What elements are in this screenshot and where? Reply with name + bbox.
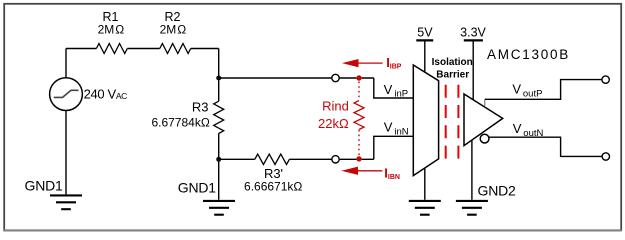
wire bottom with R3': [219, 136, 413, 159]
wire top node to amp: [219, 78, 413, 98]
svg-text:inP: inP: [394, 88, 408, 99]
resistor R3: [214, 101, 224, 133]
wire left vertical: [65, 49, 67, 195]
resistor Rind red dotted leads: [358, 82, 360, 101]
source V1 240 VAC: [50, 78, 83, 111]
resistor R1: [96, 44, 127, 54]
resistor R3': [255, 154, 290, 164]
resistor R2: [160, 44, 191, 54]
current arrow IBN: [341, 166, 400, 181]
svg-text:outP: outP: [523, 89, 543, 100]
op-amp U1 output triangle: [464, 94, 503, 146]
svg-text:inN: inN: [394, 126, 408, 137]
red node top: [356, 75, 361, 80]
op-amp U1 input stage trapezoid: [413, 65, 438, 176]
svg-text:IBN: IBN: [388, 174, 400, 181]
5V supply: [424, 41, 426, 72]
svg-text:6.66671kΩ: 6.66671kΩ: [244, 179, 302, 193]
svg-text:AMC1300B: AMC1300B: [487, 47, 570, 62]
terminal circle VoutP: [602, 76, 609, 83]
svg-text:V: V: [512, 82, 521, 97]
terminal circle bottom left: [332, 156, 339, 163]
svg-text:2M Ω: 2M Ω: [98, 23, 125, 37]
wire right vertical with R3: [218, 49, 220, 200]
ground GND2: [471, 140, 473, 200]
svg-text:GND2: GND2: [478, 182, 517, 198]
svg-text:GND1: GND1: [178, 179, 217, 195]
3.3V supply: [472, 41, 474, 100]
current arrow IBP: [342, 55, 402, 71]
svg-text:outN: outN: [523, 128, 543, 139]
svg-text:22kΩ: 22kΩ: [318, 116, 349, 131]
wire VoutP: [484, 99, 486, 106]
svg-text:IBP: IBP: [390, 64, 402, 71]
terminal circle VoutN: [602, 153, 609, 160]
ground GND1 left: [50, 195, 82, 209]
svg-text:5V: 5V: [417, 25, 433, 39]
svg-text:Barrier: Barrier: [436, 69, 469, 80]
red node bottom: [356, 156, 361, 161]
svg-text:2M Ω: 2M Ω: [160, 23, 187, 37]
svg-text:V: V: [513, 121, 522, 136]
svg-text:Rind: Rind: [322, 99, 349, 114]
svg-text:R3: R3: [192, 100, 209, 115]
svg-text:3.3V: 3.3V: [460, 25, 486, 39]
ground below trapezoid: [424, 168, 426, 200]
isolation barrier dashed lines: [445, 85, 447, 159]
node junction bottom: [216, 157, 221, 162]
wire VoutN: [489, 137, 602, 156]
node junction top: [216, 76, 221, 81]
inversion bubble: [480, 134, 489, 143]
terminal circle top left: [332, 74, 339, 81]
wire top from source to node: [66, 48, 219, 50]
ground GND1 middle: [203, 201, 235, 215]
svg-text:V: V: [384, 82, 393, 97]
svg-text:V: V: [384, 120, 393, 135]
svg-text:Isolation: Isolation: [432, 57, 473, 68]
svg-text:GND1: GND1: [25, 178, 64, 194]
svg-text:6.67784kΩ: 6.67784kΩ: [151, 115, 209, 129]
